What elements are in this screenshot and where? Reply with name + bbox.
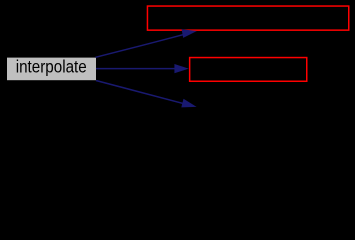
svg-text:interpolate: interpolate (16, 58, 87, 77)
